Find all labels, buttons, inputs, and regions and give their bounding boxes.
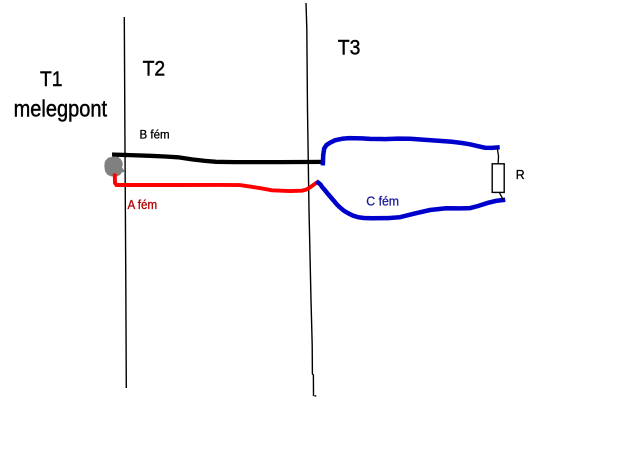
wire A (red metal) [115, 176, 316, 192]
connector resistor bottom lead [499, 193, 502, 200]
zone boundary line T1/T2 [124, 17, 126, 388]
zone boundary line T2/T3 [306, 3, 314, 396]
resistor R body [492, 164, 504, 193]
wire C bottom run (blue metal) [318, 183, 503, 219]
svg-text:R: R [516, 168, 525, 182]
svg-text:T1: T1 [40, 67, 63, 91]
wire B stub into junction [113, 154, 119, 160]
svg-text:melegpont: melegpont [14, 95, 107, 122]
svg-text:T2: T2 [143, 57, 166, 81]
junction blob (hot junction) [104, 157, 124, 177]
wire B (black metal) [114, 155, 322, 163]
svg-text:T3: T3 [338, 35, 361, 59]
wire C top run (blue metal) [323, 138, 498, 163]
svg-text:B fém: B fém [140, 127, 170, 141]
svg-text:C fém: C fém [366, 193, 399, 209]
dot below line T2/T3 [315, 395, 317, 397]
connector resistor top lead [497, 148, 498, 164]
svg-text:A fém: A fém [128, 197, 158, 212]
